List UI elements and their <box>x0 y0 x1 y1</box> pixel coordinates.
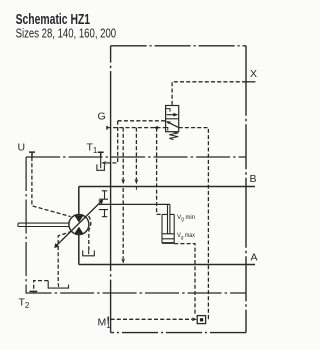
port G tick <box>106 126 108 130</box>
wire M1 line with arrow <box>111 317 197 321</box>
port label B <box>250 173 257 185</box>
wire motor column lower <box>78 234 80 264</box>
pilot wire to cylinder top <box>157 128 162 215</box>
svg-text:X: X <box>250 68 257 80</box>
feedback rod wire <box>99 203 170 205</box>
svg-text:A: A <box>251 252 258 264</box>
valve bottom blocked port <box>166 128 168 131</box>
port T2 tick <box>30 290 38 292</box>
pilot valve V1 body <box>166 106 179 132</box>
valve bottom position diagonal <box>166 121 179 127</box>
mechanical stop Vg max (lower) <box>99 210 108 217</box>
svg-text:G: G <box>98 111 106 123</box>
port label T1 <box>87 142 98 156</box>
wire line A <box>79 264 255 266</box>
svg-text:Vg max: Vg max <box>177 232 196 241</box>
variable displacement arrow <box>54 199 103 248</box>
envelope (motor housing dash-dot box) <box>111 46 246 333</box>
port T1 tick <box>98 152 104 157</box>
svg-text:T1: T1 <box>87 142 98 156</box>
svg-text:U: U <box>18 142 26 154</box>
valve top position blocked port <box>166 109 170 112</box>
case drain to T2 <box>58 231 72 284</box>
pilot branch to B second <box>135 128 139 190</box>
drain arrow to T1 tank <box>101 121 117 165</box>
cylinder rod <box>168 204 170 233</box>
port label X <box>250 68 257 80</box>
port label U <box>18 142 26 154</box>
tank cup under motor <box>83 250 95 255</box>
port label G <box>98 111 106 123</box>
motor M1 circle <box>69 215 89 235</box>
title text <box>16 12 117 40</box>
port label T2 <box>19 297 30 311</box>
tank cup at T1 <box>97 157 105 170</box>
pilot wire valve to M1 square <box>179 128 209 319</box>
wire motor column upper <box>78 187 80 215</box>
wire U-T1 center line <box>26 156 246 158</box>
port U tick <box>29 152 35 157</box>
stroking cylinder barrel <box>162 214 174 243</box>
svg-text:Vg min: Vg min <box>177 214 196 223</box>
svg-text:M1: M1 <box>98 317 112 331</box>
port label A <box>251 252 258 264</box>
motor triangle bottom <box>74 227 83 234</box>
cylinder piston <box>162 234 174 239</box>
shaft <box>18 223 69 226</box>
case drain arc to cup <box>89 216 91 250</box>
label Vg max <box>177 232 196 241</box>
flushing line from U <box>32 157 71 217</box>
M1 plug square <box>197 316 205 324</box>
motor triangle top <box>74 215 83 222</box>
svg-text:T2: T2 <box>19 297 30 311</box>
valve position divider <box>166 118 179 120</box>
wire line B <box>79 186 255 188</box>
pilot wire G line lower <box>107 126 166 130</box>
label Vg min <box>177 214 196 223</box>
wire U-down to T2 line <box>26 157 246 293</box>
svg-text:B: B <box>250 173 257 185</box>
valve spring <box>169 132 178 140</box>
tank cup at T2 <box>48 281 68 289</box>
valve top position arrow <box>167 113 179 117</box>
port M1 tick <box>107 317 109 322</box>
pilot wire G line upper <box>118 120 166 122</box>
pilot branch to B and A <box>121 128 125 264</box>
mechanical stop Vg min (upper) <box>99 191 108 199</box>
pilot wire X <box>246 81 255 83</box>
port label M1 <box>98 317 112 331</box>
svg-text:Sizes 28, 140, 160, 200: Sizes 28, 140, 160, 200 <box>16 26 117 40</box>
pilot wire cylinder bottom to M1 line <box>174 244 195 316</box>
wire T2 connector <box>34 281 49 293</box>
